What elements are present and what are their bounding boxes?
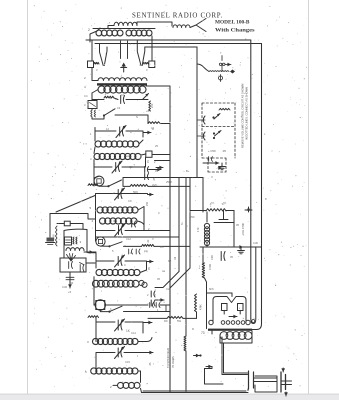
wire h188 drop bbox=[185, 178, 187, 337]
capacitor CP1 bbox=[68, 262, 70, 269]
inner rect frame bbox=[64, 229, 87, 258]
tube pins bbox=[221, 321, 225, 325]
wire stage1 out2 bbox=[160, 123, 170, 125]
shield stem bbox=[121, 65, 127, 73]
dashed control box bbox=[202, 103, 235, 158]
svg-text:5W: 5W bbox=[177, 319, 181, 323]
svg-text:R: R bbox=[192, 327, 194, 331]
gang section V1 bbox=[100, 44, 108, 66]
wire protrusion drop bbox=[49, 214, 51, 238]
svg-text:osc: osc bbox=[125, 155, 130, 158]
IF2 primary coil bbox=[97, 207, 103, 213]
svg-text:1 M: 1 M bbox=[196, 228, 200, 232]
output transformer core bbox=[208, 329, 252, 331]
svg-text:C8: C8 bbox=[129, 165, 133, 169]
svg-text:SNW: SNW bbox=[53, 234, 56, 240]
variable capacitor C15 bbox=[117, 348, 119, 357]
wire LP1 out bbox=[84, 251, 96, 253]
svg-text:6F6: 6F6 bbox=[209, 287, 214, 291]
audio coil L4 bbox=[93, 338, 99, 344]
output tube envelope bbox=[213, 297, 246, 323]
resistor RP3 bbox=[76, 237, 77, 244]
electrolytic CP3 bbox=[79, 265, 81, 272]
wire right bus B down bbox=[261, 44, 263, 325]
wire protrusion right links bbox=[86, 262, 95, 264]
svg-text:C: C bbox=[130, 251, 132, 255]
svg-text:+5: +5 bbox=[68, 290, 72, 294]
wire CP1 down bbox=[69, 272, 71, 284]
loop antenna coil L3 bbox=[93, 28, 155, 30]
svg-text:+B: +B bbox=[146, 109, 150, 113]
wire bus v190 bbox=[189, 178, 191, 269]
resistor R7 bbox=[167, 316, 183, 318]
resistor R9 in box bbox=[219, 108, 230, 110]
wire socket leads bbox=[92, 93, 104, 119]
heater bus ends bbox=[251, 247, 256, 324]
trimmer capacitor C2 bbox=[149, 61, 155, 68]
svg-text:SENTINEL RADIO CORP.: SENTINEL RADIO CORP. bbox=[132, 11, 223, 20]
IF3 secondary coil bbox=[93, 280, 100, 287]
svg-text:PP: PP bbox=[144, 250, 148, 254]
svg-text:05: 05 bbox=[155, 169, 158, 173]
wire socket4 leads bbox=[94, 305, 148, 312]
plug plate2 bbox=[285, 375, 287, 390]
gang section V2 bbox=[137, 40, 145, 66]
svg-text:2: 2 bbox=[88, 28, 90, 32]
wire stage5 frame bbox=[96, 353, 147, 364]
svg-text:05: 05 bbox=[230, 255, 233, 259]
audio coil L5 bbox=[91, 368, 97, 374]
arrow into b1 bbox=[194, 355, 200, 357]
wire r11 down bbox=[185, 351, 187, 392]
tube socket X2 bbox=[94, 176, 104, 186]
svg-text:C9: C9 bbox=[128, 199, 132, 203]
arrow det bbox=[148, 261, 153, 263]
wire if3 leads bbox=[94, 270, 147, 305]
coil end curl bbox=[139, 280, 144, 285]
svg-text:Y: Y bbox=[196, 152, 198, 156]
resistor R8b vertical bbox=[195, 294, 197, 312]
svg-text:70 OHMS: 70 OHMS bbox=[171, 356, 175, 368]
wire bottom bus bbox=[142, 391, 249, 393]
capacitor C3 bbox=[120, 96, 122, 104]
plug stubs bbox=[281, 381, 292, 385]
svg-text:R6: R6 bbox=[160, 245, 164, 249]
scan speckle noise bbox=[119, 60, 122, 63]
arrow out bbox=[147, 352, 153, 354]
wire loop right lead down bbox=[151, 36, 153, 44]
svg-text:25: 25 bbox=[155, 144, 158, 148]
wire diag cross2 bbox=[155, 272, 179, 288]
IF1 primary coil bbox=[95, 141, 101, 147]
capacitor C11 bbox=[128, 249, 130, 254]
wire det bus bbox=[96, 236, 180, 238]
tube cathode arrow bbox=[232, 316, 237, 318]
wire bus top3 bbox=[145, 46, 197, 48]
wire bus v203 bbox=[202, 178, 204, 264]
svg-text:250: 250 bbox=[150, 103, 154, 108]
wire mid stubs bbox=[155, 160, 171, 162]
IF3 primary coil bbox=[96, 269, 102, 275]
RF transformer T1 core bbox=[97, 83, 147, 85]
wire plate lead bbox=[211, 331, 213, 334]
wire plug leads bbox=[254, 378, 278, 382]
svg-text:C43: C43 bbox=[62, 285, 67, 289]
capacitor CP2 bbox=[66, 276, 74, 278]
wire fan bbox=[67, 254, 76, 262]
svg-text:C: C bbox=[124, 263, 126, 267]
wire L5-L6 bbox=[96, 363, 142, 393]
svg-text:C14: C14 bbox=[131, 331, 136, 335]
outer box P2 bbox=[60, 258, 86, 272]
variable capacitor C12 bbox=[117, 257, 119, 266]
capacitor C16 bbox=[208, 157, 210, 162]
resistor R4 bbox=[130, 184, 148, 186]
wire stage1 inter bbox=[92, 98, 148, 100]
plug arrow top bbox=[282, 368, 284, 372]
resistor R8 top bbox=[206, 209, 226, 211]
wire bus top1 bbox=[86, 39, 251, 41]
svg-text:TO SPKR FIELD: TO SPKR FIELD bbox=[166, 348, 170, 368]
svg-text:R9: R9 bbox=[164, 319, 168, 323]
wire protrusion diagonal bbox=[56, 196, 95, 213]
wire socket2 leads bbox=[94, 176, 109, 186]
switch S1c bbox=[110, 242, 123, 247]
wire gang right drop bbox=[151, 44, 153, 62]
svg-text:C12: C12 bbox=[126, 237, 131, 241]
resistor R1 bbox=[104, 96, 114, 98]
filter capacitor plate2 bbox=[253, 372, 255, 388]
wire det out bbox=[124, 245, 142, 247]
svg-text:AVC: AVC bbox=[152, 183, 157, 187]
switch S1a bbox=[104, 109, 115, 116]
svg-text:470K: 470K bbox=[208, 264, 212, 270]
wire T1 right lead to bus bbox=[146, 86, 170, 122]
IF2 secondary coil bbox=[100, 218, 106, 224]
IF1 secondary coil bbox=[94, 153, 100, 159]
capacitor C17 bbox=[219, 219, 228, 221]
small coil L6 bbox=[118, 382, 124, 388]
ground G3 bbox=[240, 247, 242, 251]
svg-text:470K: 470K bbox=[200, 304, 203, 310]
tube socket X4 bbox=[96, 301, 105, 310]
svg-text:+ C50: + C50 bbox=[208, 149, 216, 153]
wire stage3 frame3 bbox=[88, 253, 147, 270]
tube grid box1 bbox=[222, 304, 228, 311]
power cord outline bbox=[255, 376, 277, 392]
svg-text:S: S bbox=[136, 115, 138, 119]
antenna coupling coil L1 bbox=[114, 22, 137, 25]
choke coil CH1 bbox=[204, 223, 209, 228]
resistor RP1 vertical bbox=[56, 226, 58, 246]
svg-text:250: 250 bbox=[190, 215, 195, 219]
svg-text:73: 73 bbox=[201, 331, 205, 335]
tube grid box2 bbox=[238, 304, 244, 311]
variable capacitor C6 bbox=[115, 163, 117, 172]
output transformer secondary bbox=[220, 332, 228, 340]
wire stub g bbox=[203, 162, 218, 164]
svg-text:IN DOTTED LINES. CONNECT AS SH: IN DOTTED LINES. CONNECT AS SHOWN bbox=[245, 87, 249, 140]
wire stage2 out bbox=[123, 178, 203, 187]
wire osc vertical bbox=[196, 47, 198, 178]
protrusion coil LP1 bbox=[66, 248, 84, 251]
wire loop top lead bbox=[97, 26, 114, 32]
svg-text:C1: C1 bbox=[121, 93, 125, 97]
T2 frame bbox=[220, 331, 252, 343]
wire box stubs bbox=[197, 120, 205, 136]
plug arrow bottom bbox=[285, 392, 287, 396]
wire stage2 frame2 bbox=[94, 157, 146, 186]
wire vol tap bbox=[225, 246, 227, 248]
wire bus mid vertical bbox=[169, 124, 171, 393]
RF transformer T1 primary bbox=[98, 78, 147, 81]
svg-text:C26: C26 bbox=[210, 255, 214, 260]
wire det bottom bbox=[200, 243, 261, 247]
phono symbol bbox=[219, 76, 223, 80]
wire det top bbox=[190, 210, 206, 212]
wire tone stub bbox=[221, 56, 223, 61]
variable capacitor C9 bbox=[118, 226, 120, 235]
series caps C19 bbox=[149, 303, 151, 308]
wire L elbow bbox=[205, 369, 224, 385]
capacitor C7 stack bbox=[144, 167, 146, 173]
ground G2 bbox=[221, 163, 223, 167]
svg-text:250K: 250K bbox=[166, 180, 172, 184]
switch S1d bbox=[110, 306, 123, 311]
arrow stage4 bbox=[147, 322, 152, 324]
trimmer box P1 bbox=[64, 221, 70, 226]
resistor R10 vertical bbox=[202, 263, 204, 278]
svg-text:44: 44 bbox=[70, 281, 74, 285]
wire diag cross1 bbox=[170, 268, 190, 288]
svg-text:VOL 470K: VOL 470K bbox=[241, 222, 245, 235]
svg-text:05: 05 bbox=[236, 223, 239, 227]
wire antenna lead bbox=[137, 22, 172, 26]
chassis ground G1 bbox=[47, 238, 55, 242]
wire plate lead4 bbox=[148, 317, 197, 319]
wire stage3 frame top bbox=[96, 194, 148, 242]
wire gang taps bbox=[121, 41, 128, 59]
volume control VR1 bbox=[248, 207, 250, 212]
resistor R11 vertical bbox=[184, 336, 186, 351]
capacitor cluster bbox=[91, 110, 92, 117]
det block frame bbox=[207, 211, 234, 248]
arrow right det2 bbox=[159, 299, 164, 301]
switch contacts S2 bbox=[221, 64, 223, 72]
svg-text:250: 250 bbox=[146, 201, 149, 206]
tube socket X1 bbox=[88, 101, 97, 109]
svg-text:12: 12 bbox=[106, 127, 109, 131]
capacitor C18 bbox=[220, 252, 222, 261]
wire socket3 leads bbox=[101, 245, 110, 247]
resistor R6 bbox=[88, 316, 99, 318]
svg-text:K2: K2 bbox=[168, 259, 172, 263]
plate arrow V1 bbox=[143, 94, 149, 100]
plug plate1 bbox=[280, 372, 282, 392]
switch contact K1 bbox=[203, 116, 205, 124]
switch contact K2 bbox=[203, 132, 205, 140]
wire loop left lead down bbox=[90, 31, 97, 42]
svg-text:X: X bbox=[211, 175, 213, 179]
svg-text:C30: C30 bbox=[253, 241, 258, 245]
wire box P1 leads bbox=[57, 224, 83, 230]
wire tube top lead bbox=[231, 293, 233, 297]
svg-text:With Changes: With Changes bbox=[215, 27, 255, 33]
svg-text:C2: C2 bbox=[166, 287, 170, 291]
wire protrusion top bbox=[50, 214, 95, 220]
resistor R2 vertical bbox=[149, 101, 151, 111]
wire gang left drop bbox=[91, 40, 93, 61]
wire stage2 frame bbox=[95, 128, 143, 138]
svg-text:C4: C4 bbox=[84, 94, 88, 98]
RF transformer T1 secondary bbox=[98, 86, 105, 93]
arrow plate stage3 bbox=[148, 194, 153, 196]
svg-text:C15: C15 bbox=[125, 360, 130, 364]
svg-text:B+: B+ bbox=[186, 169, 190, 173]
wire if1 mid bbox=[94, 131, 143, 153]
svg-text:REMOVE VOLUME CONTROL CIRCUIT: REMOVE VOLUME CONTROL CIRCUIT AS SHOWN bbox=[241, 84, 245, 148]
wire r10 down bbox=[205, 278, 233, 329]
page edge line left bbox=[27, 0, 29, 394]
filter capacitor plate1 bbox=[248, 371, 250, 389]
arrow plate stage2 bbox=[145, 132, 151, 134]
trimmer box stage2 bbox=[146, 151, 152, 157]
arrow c7 bbox=[156, 169, 161, 171]
capacitor C13 stack right bbox=[150, 291, 152, 297]
page bottom margin strip bbox=[0, 395, 339, 400]
wire right bus A down bbox=[250, 40, 252, 319]
resistor R3 bbox=[88, 184, 98, 186]
outer bus U bbox=[252, 324, 262, 330]
page edge line right bbox=[308, 0, 310, 394]
antenna symbol bbox=[190, 19, 206, 32]
wire stage4 out bbox=[124, 311, 171, 313]
wire bus top2 bbox=[95, 43, 262, 45]
trimmer capacitor C1 bbox=[88, 61, 94, 68]
electrolytic capacitor CE1 bbox=[65, 237, 72, 245]
wire L4 hook bbox=[138, 338, 152, 342]
wire bottom bus join bbox=[247, 389, 249, 391]
switch S1b bbox=[109, 180, 122, 186]
dashed lower box bbox=[208, 158, 226, 172]
tone switch S2 bbox=[197, 64, 209, 72]
svg-text:C4: C4 bbox=[117, 106, 121, 110]
svg-text:4a: 4a bbox=[162, 269, 165, 273]
wire stage1 out bbox=[115, 115, 148, 124]
wire stage4 frame bbox=[96, 318, 143, 342]
arrows lower box bbox=[215, 162, 219, 164]
variable capacitor C5 bbox=[119, 127, 121, 136]
variable capacitor C14 bbox=[117, 320, 119, 330]
tube socket X3 bbox=[96, 237, 105, 246]
wire T2 leads down bbox=[222, 337, 248, 375]
wire T1 left leads bbox=[92, 68, 98, 101]
svg-text:R: R bbox=[152, 127, 154, 131]
capacitor C10 bbox=[131, 221, 133, 227]
svg-text:MODEL 100-B: MODEL 100-B bbox=[215, 20, 250, 26]
arrow into b2 bbox=[206, 366, 212, 368]
resistor RP2 bbox=[73, 237, 74, 244]
variable capacitor C8 bbox=[117, 190, 119, 199]
antenna series coil L2 bbox=[173, 25, 190, 28]
svg-text:05: 05 bbox=[157, 277, 160, 281]
wire if2 leads bbox=[137, 207, 144, 226]
resistor R2b bbox=[148, 122, 160, 124]
svg-text:.05: .05 bbox=[222, 149, 226, 153]
dashed mid line bbox=[202, 126, 235, 128]
wire bus v179 bbox=[178, 178, 180, 272]
resistor R5 bbox=[142, 244, 155, 246]
